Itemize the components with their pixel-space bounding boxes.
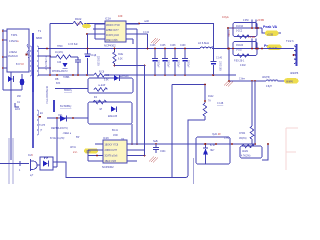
ground chassis top <box>151 38 160 44</box>
svg-text:2200/10B: 2200/10B <box>97 56 99 66</box>
wire row link <box>227 28 229 49</box>
capacitor C136 <box>152 49 158 76</box>
wire IC2 pin2 left <box>88 149 103 151</box>
svg-text:№Б: №Б <box>153 139 158 143</box>
op-amp IC1A box <box>105 21 126 42</box>
connector D plug <box>31 159 38 171</box>
svg-text:C 8нч: C 8нч <box>239 79 246 81</box>
wire divider vertical x205 <box>204 85 206 104</box>
svg-text:R3C26: R3C26 <box>236 45 244 47</box>
transformer T1 secondary winding lower <box>37 110 39 135</box>
svg-text:T1.P5: T1.P5 <box>39 125 46 127</box>
svg-text:EИH348: EИH348 <box>120 76 129 78</box>
capacitor C140 <box>211 49 217 76</box>
wire IC2 pin7 right <box>127 149 145 151</box>
svg-text:C135: C135 <box>160 45 166 47</box>
svg-text:2200уF: 2200уF <box>187 60 189 68</box>
wire aux drop <box>171 85 173 178</box>
node fb dots <box>131 143 133 145</box>
wire IC1A pin2 left <box>93 28 105 30</box>
svg-text:0.0уA: 0.0уA <box>222 15 229 19</box>
inductor L7 <box>266 80 288 81</box>
svg-text:5B60Лу: 5B60Лу <box>64 90 73 92</box>
svg-text:NCP4302: NCP4302 <box>102 165 114 169</box>
wire pink trace vertical <box>286 128 298 170</box>
transformer T1 primary winding <box>30 46 32 76</box>
shunt regulator U4 TL431 <box>203 147 208 149</box>
probe stubs row1 <box>252 20 256 29</box>
diode D2 <box>111 106 116 112</box>
wire sense drop <box>53 118 57 167</box>
shunt R3C8 loop row2 <box>233 42 257 56</box>
svg-text:0NLBJLЯ: 0NLBJLЯ <box>8 56 18 58</box>
svg-text:5.0K: 5.0K <box>104 80 109 82</box>
wire IC2 pin5 right <box>127 160 137 162</box>
wire return <box>3 86 22 90</box>
svg-text:2200уF: 2200уF <box>167 60 169 68</box>
wire IC1A pin1 left <box>95 23 105 25</box>
wire IC1A pin4 left <box>95 24 105 39</box>
wire IC2 pin4 left <box>88 150 103 161</box>
resistor R7E vertical <box>203 103 207 120</box>
diode D101 <box>8 76 13 82</box>
wire plug to opto <box>38 164 40 166</box>
wire loop2 to fb <box>131 124 133 144</box>
svg-text:LINESA: LINESA <box>9 51 18 54</box>
svg-text:ЖЖP6: ЖЖP6 <box>286 82 294 84</box>
svg-text:P.EX.2Б-1: P.EX.2Б-1 <box>234 61 245 63</box>
wire IC1A pin7 right <box>126 28 137 30</box>
node bus dots <box>49 74 51 76</box>
resistor zigzag loop2 top <box>93 100 106 104</box>
svg-text:ЖГ41: ЖГ41 <box>70 147 77 149</box>
node top taps <box>138 23 140 25</box>
svg-text:C334: C334 <box>160 151 166 153</box>
transformer T1 core <box>32 33 34 92</box>
wire IC1A pin5 right <box>126 39 133 44</box>
connector/input block P1 <box>7 29 29 72</box>
diode D40 snubber <box>63 63 68 68</box>
net pill +5A <box>267 45 282 50</box>
wire main top cont <box>92 24 214 49</box>
wire left input rail <box>2 29 4 90</box>
svg-text:HT30: HT30 <box>57 46 63 48</box>
svg-text:MB: MB <box>55 79 59 81</box>
svg-text:MEPB0L4XCTC): MEPB0L4XCTC) <box>51 128 68 130</box>
wire row3 link <box>228 49 230 82</box>
svg-text:C138: C138 <box>170 45 176 47</box>
svg-text:6ЛK: 6ЛK <box>56 83 61 85</box>
svg-text:C 14Б: C 14Б <box>217 103 224 105</box>
svg-text:2.2: 2.2 <box>77 22 81 26</box>
svg-text:ЖK(P6): ЖK(P6) <box>262 77 270 79</box>
pin mark <box>26 54 28 56</box>
wire pin y68 <box>38 67 50 69</box>
capacitor C14x <box>85 34 91 75</box>
ground chassis mid <box>224 81 233 87</box>
svg-text:3CAT6 уOл6: 3CAT6 уOл6 <box>105 155 119 158</box>
net pill GND <box>284 78 299 83</box>
svg-text:2.2-: 2.2- <box>73 150 78 154</box>
svg-text:1ЮK: 1ЮK <box>113 135 119 137</box>
wire sense divider vertical <box>251 81 253 126</box>
svg-text:109: 109 <box>118 14 123 18</box>
svg-text:+5.5B: +5.5B <box>257 18 264 22</box>
svg-text:+3.3B: +3.3B <box>248 35 255 39</box>
svg-text:C HP: C HP <box>224 138 230 140</box>
svg-text:0.45Δ Ma: 0.45Δ Ma <box>9 40 19 43</box>
svg-text:2200уF: 2200уF <box>177 60 179 68</box>
wire +5.5 row1 <box>228 27 262 29</box>
wire pin y47 <box>38 48 200 50</box>
svg-text:ЛEY: ЛEY <box>210 150 215 152</box>
wire pin y88 <box>55 88 88 90</box>
svg-text:0-2C2: 0-2C2 <box>236 31 243 33</box>
svg-text:OГM4: OГM4 <box>239 133 246 135</box>
svg-text:ГOBB-: ГOBB- <box>63 77 70 79</box>
wire pin y118 <box>47 117 88 119</box>
diode D3 on y118 <box>60 116 66 122</box>
svg-text:4BE3 Cбй5: 4BE3 Cбй5 <box>106 39 118 42</box>
svg-text:Ю'CE Ю-(2%)': Ю'CE Ю-(2%)' <box>50 138 65 140</box>
resistor R102 <box>73 22 92 26</box>
pin mark red <box>39 116 41 118</box>
wire mid vertical B <box>136 29 138 144</box>
wire loop D2 branch <box>88 102 132 124</box>
svg-text:Ю2 БMB2у: Ю2 БMB2у <box>60 106 72 108</box>
inductor T1/2 winding <box>295 44 297 66</box>
svg-text:CE9: CE9 <box>86 152 91 154</box>
svg-text:2ИBЯ OUT7: 2ИBЯ OUT7 <box>105 150 118 152</box>
wire IC1A pin3 left <box>87 33 105 35</box>
resistor R vertical <box>250 126 254 144</box>
svg-text:1B(2%): 1B(2%) <box>239 138 247 140</box>
svg-text:T4P1: T4P1 <box>11 33 18 37</box>
shunt regulator TL431 loop <box>196 137 230 164</box>
wire isolation left A <box>8 138 10 184</box>
wire divider tail <box>262 144 268 160</box>
svg-text:MTD6bLA8CT2: MTD6bLA8CT2 <box>52 70 68 73</box>
wire opto out <box>53 162 66 178</box>
svg-text:M PBOBOK 5T10: M PBOBOK 5T10 <box>45 86 47 105</box>
wire aux loop y84 <box>172 84 205 86</box>
node rail taps <box>2 30 4 32</box>
wire loop D1 branch <box>88 78 133 93</box>
net pill +5VA <box>265 31 279 36</box>
wire IC2 pin3 left <box>88 155 103 157</box>
svg-text:IC1б: IC1б <box>103 136 109 140</box>
wire secondary bus y75 <box>38 74 236 76</box>
svg-text:R142: R142 <box>208 96 214 98</box>
svg-text:6.2K: 6.2K <box>118 59 123 61</box>
capacitor C138 <box>172 49 178 76</box>
ground chassis bottom <box>149 157 158 163</box>
svg-text:T1/2 h: T1/2 h <box>286 39 294 43</box>
svg-text:Peak VA: Peak VA <box>263 25 278 29</box>
svg-text:ЖЖP6: ЖЖP6 <box>290 71 299 75</box>
net pill pin2 <box>86 33 88 35</box>
capacitor C109 <box>182 49 188 76</box>
wire row3 <box>229 80 266 82</box>
resistor zigzag on y57 <box>50 55 78 59</box>
svg-text:4BE3 Cбй5: 4BE3 Cбй5 <box>105 160 117 163</box>
svg-text:1BOKX YГC8: 1BOKX YГC8 <box>106 25 120 27</box>
svg-text:0.8уH: 0.8уH <box>266 86 272 88</box>
wire main top <box>50 23 73 25</box>
optocoupler IC101 <box>40 157 53 170</box>
wire light bottom right <box>193 158 195 184</box>
svg-text:4.7K(2%): 4.7K(2%) <box>241 156 251 158</box>
wire IC2 pin1 left <box>95 143 103 145</box>
wire fb tap y65.5 <box>115 65 145 67</box>
net highlight <box>82 24 91 29</box>
svg-text:EИE1.88: EИE1.88 <box>108 116 118 118</box>
capacitor C101 <box>20 78 25 86</box>
wire +5 sense vertical <box>254 81 256 144</box>
svg-text:B O 5.8: B O 5.8 <box>16 64 24 66</box>
svg-text:L6 6.8uH: L6 6.8uH <box>198 41 209 45</box>
svg-text:ЧЛ: ЧЛ <box>99 109 102 111</box>
svg-text:10-(2%): 10-(2%) <box>55 52 63 54</box>
wire rail stubs to block <box>3 31 7 68</box>
wire IC2 pin6 right <box>127 155 145 157</box>
svg-text:6836: 6836 <box>36 36 42 40</box>
wire from block down <box>10 72 12 160</box>
svg-text:0.350: 0.350 <box>243 20 249 22</box>
svg-text:R102: R102 <box>75 17 82 21</box>
svg-text:7А: 7А <box>208 100 211 103</box>
svg-text:C136: C136 <box>150 45 156 47</box>
diode D1 <box>114 75 119 81</box>
svg-text:1BOKX YГC8: 1BOKX YГC8 <box>105 145 119 147</box>
wire IC1A pin8 right <box>126 23 139 25</box>
resistor zigzag loop1 <box>94 88 107 92</box>
op-amp IC2 box <box>103 140 127 163</box>
svg-text:IC26: IC26 <box>28 155 34 157</box>
svg-text:№96: №96 <box>144 20 150 23</box>
capacitor C135 <box>162 49 168 76</box>
wire stub <box>15 103 19 107</box>
svg-text:2200уF: 2200уF <box>157 60 159 68</box>
svg-text:R C8: R C8 <box>99 72 105 74</box>
svg-text:26K: 26K <box>17 96 22 98</box>
transformer T1 secondary winding upper <box>37 46 39 76</box>
pin tick 4 <box>19 161 21 166</box>
svg-text:C109: C109 <box>180 45 186 47</box>
net pill IC2 <box>84 148 98 153</box>
svg-text:0.302: 0.302 <box>240 65 246 67</box>
svg-text:..OEE1 н: ..OEE1 н <box>62 133 72 135</box>
svg-text:C 140: C 140 <box>216 58 223 60</box>
wire IC2 pin8 right <box>127 143 139 145</box>
wire secondary ground run <box>66 120 205 178</box>
svg-text:R1C34: R1C34 <box>236 26 244 28</box>
wire IC1A pin6 right <box>126 34 148 49</box>
probe stubs row2 <box>252 39 256 49</box>
svg-text:NCP4302: NCP4302 <box>104 44 116 48</box>
svg-text:T1 PB9-7B 5T: T1 PB9-7B 5T <box>44 56 46 71</box>
wire fb horizontal <box>127 143 255 145</box>
wire bottom feed <box>0 163 29 165</box>
shunt R1C26 loop <box>233 23 257 37</box>
svg-text:C.XX 5нF: C.XX 5нF <box>68 44 78 46</box>
wire snubber vertical <box>49 24 51 76</box>
svg-text:ЖA81: ЖA81 <box>242 150 249 153</box>
wire bus cont <box>212 48 262 50</box>
svg-text:№ E1P: № E1P <box>98 84 106 87</box>
svg-text:3CAT6 уOл6: 3CAT6 уOл6 <box>106 34 120 37</box>
svg-text:2ИBЯ OUT7: 2ИBЯ OUT7 <box>106 30 119 32</box>
resistor R481 loop <box>240 146 262 158</box>
svg-text:0-302: 0-302 <box>236 50 243 52</box>
capacitor C334 <box>153 144 159 153</box>
svg-text:IC1A: IC1A <box>105 17 111 21</box>
svg-text:+5.5B: +5.5B <box>267 34 273 36</box>
svg-text:Ю M: Ю M <box>210 145 215 147</box>
resistor R13x vertical <box>113 49 116 66</box>
transformer aux winding bar <box>53 100 55 112</box>
wire mid vertical B low <box>144 66 146 156</box>
winding wiggle inside block <box>27 44 29 58</box>
svg-text:C14Д: C14Д <box>91 55 97 57</box>
svg-text:ЛуA1 ##: ЛуA1 ## <box>212 133 221 136</box>
wire isolation left B <box>12 138 14 184</box>
svg-text:T1: T1 <box>38 29 42 33</box>
svg-text:1000/16B: 1000/16B <box>219 61 221 71</box>
svg-text:B3.41: B3.41 <box>112 130 119 132</box>
svg-text:Я13к: Я13к <box>118 54 123 56</box>
wire row2 to winding <box>262 48 294 50</box>
wire pin y56 <box>38 55 50 57</box>
svg-text:22nF: 22nF <box>15 109 21 111</box>
